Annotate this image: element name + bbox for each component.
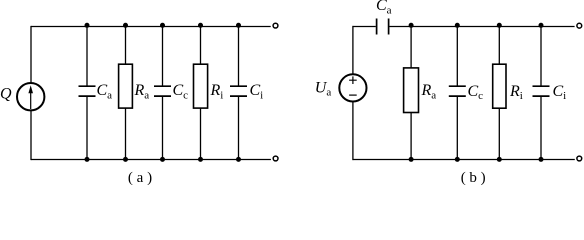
wire left branch upper (a)	[30, 26, 32, 85]
svg-text:Ua: Ua	[315, 79, 332, 98]
svg-text:Ca: Ca	[97, 82, 113, 101]
wire bottom rail (b)	[353, 159, 575, 161]
svg-text:Ri: Ri	[210, 82, 224, 101]
node dot top R_a (a)	[123, 23, 128, 28]
svg-text:( a ): ( a )	[128, 170, 152, 185]
capacitor C_c (a)	[154, 86, 171, 96]
wire left branch lower (a)	[30, 109, 32, 160]
svg-text:Ra: Ra	[134, 82, 150, 101]
node dot bottom R_a (b)	[409, 157, 414, 162]
terminal bottom (a)	[273, 156, 278, 161]
wire top rail left of C_a (b)	[353, 26, 376, 28]
node dot top C_c (a)	[160, 23, 165, 28]
wire C_a stub bottom	[86, 96, 88, 160]
svg-text:Q: Q	[0, 86, 12, 103]
terminal bottom (b)	[577, 156, 582, 161]
node dot bottom C_c (a)	[160, 157, 165, 162]
resistor R_a (b)	[404, 68, 419, 113]
voltage source U_a	[339, 74, 366, 101]
svg-text:Ci: Ci	[250, 82, 264, 101]
node dot bottom R_a (a)	[123, 157, 128, 162]
wire top rail (a)	[31, 26, 271, 28]
wire R_a stub bottom (b)	[410, 113, 412, 161]
capacitor C_a (b) series	[377, 19, 389, 35]
current source Q	[17, 83, 44, 110]
svg-text:Ci: Ci	[553, 83, 567, 102]
wire R_i stub top (a)	[200, 26, 202, 64]
wire left branch upper (b)	[352, 26, 354, 75]
node dot top R_i (b)	[497, 23, 502, 28]
svg-text:Cc: Cc	[468, 83, 484, 102]
node dot top C_a (a)	[85, 23, 90, 28]
node dot top C_i (b)	[539, 23, 544, 28]
wire C_i stub top (b)	[540, 26, 542, 86]
wire C_c stub top	[162, 26, 164, 86]
svg-text:( b ): ( b )	[461, 170, 486, 185]
wire R_a stub bottom (a)	[125, 108, 127, 160]
wire bottom rail (a)	[31, 159, 271, 161]
node dot bottom C_i (b)	[539, 157, 544, 162]
capacitor C_c (b)	[449, 86, 466, 96]
resistor R_i (b)	[493, 64, 506, 108]
wire C_c stub bottom (b)	[456, 96, 458, 160]
node dot bottom R_i (a)	[198, 157, 203, 162]
wire R_a stub top (a)	[125, 26, 127, 64]
wire R_i stub top (b)	[498, 26, 500, 64]
node dot top R_a (b)	[409, 23, 414, 28]
wire C_a stub top	[86, 26, 88, 86]
wire top rail right of C_a (b)	[389, 26, 574, 28]
wire R_i stub bottom (a)	[200, 108, 202, 160]
wire left branch lower (b)	[352, 101, 354, 160]
node dot bottom C_c (b)	[455, 157, 460, 162]
wire C_c stub top (b)	[456, 26, 458, 86]
wire C_i stub bottom (a)	[238, 96, 240, 160]
capacitor C_a (a)	[79, 86, 96, 96]
wire R_i stub bottom (b)	[498, 108, 500, 160]
terminal top (b)	[577, 23, 582, 28]
wire C_i stub top (a)	[238, 26, 240, 86]
wire C_c stub bottom	[162, 96, 164, 160]
svg-text:Cc: Cc	[173, 82, 189, 101]
node dot bottom R_i (b)	[497, 157, 502, 162]
node dot top C_c (b)	[455, 23, 460, 28]
terminal top (a)	[273, 23, 278, 28]
svg-text:Ri: Ri	[509, 83, 523, 102]
resistor R_i (a)	[194, 64, 208, 108]
wire R_a stub top (b)	[410, 26, 412, 68]
svg-text:Ra: Ra	[421, 82, 437, 101]
node dot bottom C_a (a)	[85, 157, 90, 162]
node dot bottom C_i (a)	[236, 157, 241, 162]
capacitor C_i (a)	[230, 86, 247, 96]
svg-text:Ca: Ca	[376, 0, 392, 16]
resistor R_a (a)	[119, 64, 133, 108]
wire C_i stub bottom (b)	[540, 96, 542, 160]
node dot top C_i (a)	[236, 23, 241, 28]
capacitor C_i (b)	[533, 86, 550, 96]
node dot top R_i (a)	[198, 23, 203, 28]
